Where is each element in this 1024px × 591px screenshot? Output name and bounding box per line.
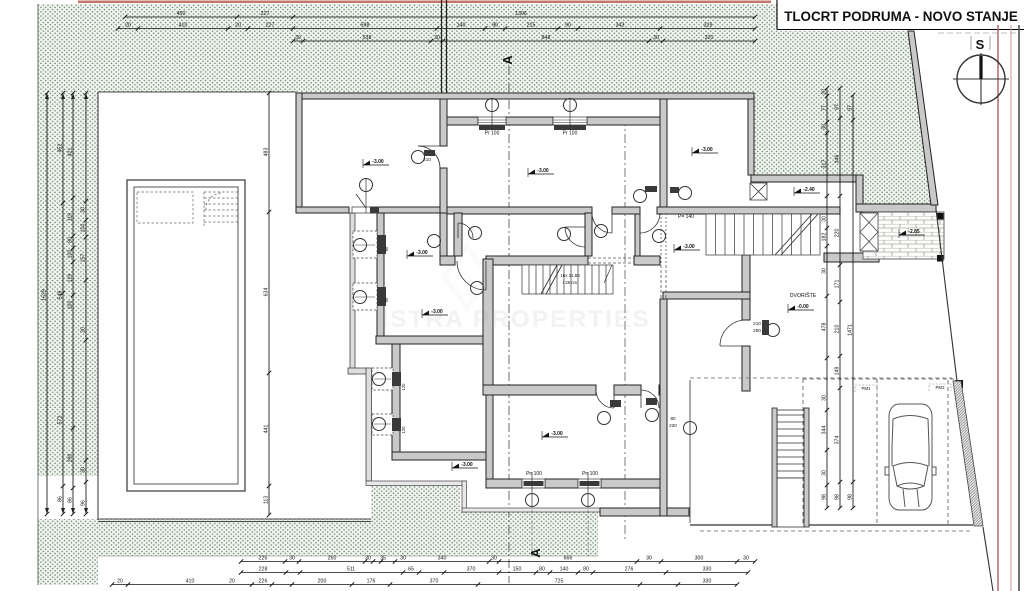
pool shallow zone dashed — [137, 192, 193, 223]
wall south of NW room east part — [378, 207, 447, 213]
svg-text:200: 200 — [318, 579, 327, 585]
wall light shaft b — [506, 117, 553, 125]
svg-text:100: 100 — [81, 224, 87, 233]
level mark terrace — [794, 187, 820, 196]
parking label PM2 — [929, 384, 951, 391]
dimension row bottom 3 — [110, 579, 739, 587]
door D1 in NW divider wall — [418, 146, 440, 168]
door D3a corridor west leaf — [592, 213, 612, 233]
svg-text:77: 77 — [822, 105, 828, 111]
site boundary left edge — [37, 4, 39, 585]
svg-text:16x 21,88: 16x 21,88 — [560, 273, 580, 278]
wall corridor south mid — [612, 207, 640, 214]
fixture circle at 685,193 — [679, 187, 692, 200]
svg-text:149: 149 — [835, 367, 841, 376]
section line secondary — [624, 117, 626, 540]
svg-text:30: 30 — [491, 556, 497, 562]
parking south dashed — [700, 530, 973, 532]
boundary line diagonal middle — [936, 209, 957, 381]
dimension col right 3 — [848, 93, 856, 510]
wall thin west jog — [348, 368, 368, 374]
wall below brick terrace — [824, 253, 879, 262]
svg-text:140: 140 — [457, 23, 466, 29]
wall exterior west upper — [296, 93, 302, 213]
dimension col left 1 — [42, 91, 50, 516]
wall duct column — [440, 213, 447, 256]
parcel boundary double line — [441, 0, 443, 93]
wall light shaft c — [587, 117, 663, 125]
column marker bottom — [937, 255, 944, 262]
car top view — [885, 404, 936, 510]
window Pn100 west — [522, 471, 545, 507]
wall corridor south east — [657, 207, 840, 214]
title block divider horizontal — [777, 29, 1024, 31]
svg-text:228: 228 — [259, 567, 268, 573]
svg-text:119: 119 — [68, 213, 74, 221]
wall big room south east part — [659, 385, 667, 395]
window axis dashed b — [587, 488, 589, 556]
stairs external south — [777, 410, 804, 527]
svg-text:-3.00: -3.00 — [551, 431, 563, 437]
door D5 to stair hall — [457, 261, 486, 290]
title block divider vertical — [776, 0, 778, 30]
svg-text:80: 80 — [670, 416, 676, 421]
svg-text:410: 410 — [179, 23, 188, 29]
door D9 in small divider wall — [565, 227, 585, 247]
parking south line — [690, 524, 973, 526]
level mark brick terrace — [899, 229, 925, 238]
svg-text:290: 290 — [68, 454, 74, 463]
svg-text:483: 483 — [264, 148, 270, 157]
svg-text:150: 150 — [513, 567, 522, 573]
site lawn left strip — [37, 92, 98, 476]
svg-text:-3.00: -3.00 — [461, 462, 473, 468]
fixture circle at 477,288 — [471, 282, 484, 295]
svg-text:1471: 1471 — [848, 324, 854, 336]
svg-text:370: 370 — [467, 567, 476, 573]
fixture circle at 434,241 — [428, 235, 441, 248]
wall corridor south west — [447, 207, 592, 214]
window with vent in NW south wall — [352, 179, 379, 214]
svg-text:100: 100 — [68, 250, 74, 259]
svg-text:80: 80 — [68, 237, 74, 243]
fixture circle at 690,428 — [684, 422, 697, 435]
svg-text:80: 80 — [583, 567, 589, 573]
wall divider NW room lower — [440, 168, 447, 213]
pink margin line 1 — [997, 25, 999, 591]
X-braced wall strip at terrace — [860, 213, 878, 251]
fixture box c — [670, 187, 679, 193]
brick terrace east — [863, 212, 944, 259]
svg-text:/ 28 cm: / 28 cm — [563, 280, 578, 285]
svg-text:20: 20 — [81, 327, 87, 333]
svg-text:346: 346 — [835, 155, 841, 164]
svg-text:572: 572 — [58, 416, 64, 425]
site lawn bottom strip — [98, 486, 598, 556]
terrace edge line west — [366, 481, 466, 486]
boundary wall diagonal thick — [908, 31, 938, 205]
svg-text:S: S — [976, 37, 985, 52]
svg-text:-3.00: -3.00 — [701, 147, 713, 153]
fixture box d — [610, 400, 621, 407]
hidden wall dashed stair east — [660, 265, 662, 299]
site lawn right upper connector — [751, 4, 777, 175]
svg-text:P= 140: P= 140 — [678, 214, 694, 220]
svg-text:317: 317 — [822, 160, 828, 169]
svg-text:511: 511 — [347, 567, 355, 573]
svg-text:227: 227 — [266, 23, 275, 29]
svg-text:20: 20 — [235, 23, 241, 29]
parking boundary dashed — [803, 379, 955, 525]
svg-text:-3.00: -3.00 — [372, 159, 384, 165]
wall lower-left west — [392, 344, 400, 460]
svg-text:ISTRA PROPERTIES: ISTRA PROPERTIES — [381, 306, 650, 333]
svg-text:374: 374 — [835, 436, 841, 445]
stairs main flight — [522, 265, 613, 294]
svg-text:90: 90 — [384, 246, 389, 251]
dashed helper line near compass — [938, 32, 1016, 34]
dimension row bottom 2 — [239, 567, 750, 575]
svg-text:30: 30 — [822, 395, 828, 401]
level mark SW room — [452, 462, 478, 471]
svg-text:65: 65 — [408, 567, 414, 573]
fixture circle at 601,231 — [595, 225, 608, 238]
wall mid-left vertical — [377, 213, 384, 344]
dimension row bottom 1 — [239, 556, 757, 564]
wall lower-mid west — [483, 259, 493, 385]
svg-text:20: 20 — [117, 579, 123, 585]
fixture circle at 640,196 — [634, 190, 647, 203]
wall above stair right — [634, 256, 660, 265]
column marker parking — [955, 380, 963, 388]
wall small room divider a — [454, 213, 462, 256]
svg-text:30: 30 — [822, 124, 828, 130]
hidden wall dotted below divider — [660, 213, 662, 265]
svg-text:157: 157 — [81, 254, 87, 263]
wall courtyard west upper — [742, 255, 750, 320]
wall above stair mid — [486, 256, 588, 265]
svg-text:1306: 1306 — [515, 11, 527, 17]
svg-text:90: 90 — [492, 23, 498, 29]
svg-text:30: 30 — [822, 470, 828, 476]
fixture circle at 475,233 — [469, 227, 482, 240]
svg-text:30: 30 — [365, 556, 371, 562]
fixture box a — [424, 150, 435, 156]
stairs upper flight to terrace — [706, 214, 820, 255]
wall L vertical — [856, 175, 863, 212]
wall bottom room west — [486, 395, 493, 479]
wall above stair left — [440, 256, 455, 265]
svg-text:30: 30 — [822, 268, 828, 274]
svg-text:320: 320 — [705, 35, 714, 41]
wall small divider c — [635, 213, 640, 256]
svg-text:-2.85: -2.85 — [908, 229, 920, 235]
svg-text:329: 329 — [704, 23, 713, 29]
light well SW-2 — [372, 414, 401, 435]
stair side wall west — [772, 408, 777, 527]
svg-text:A: A — [500, 55, 515, 65]
svg-text:30: 30 — [434, 35, 440, 41]
section line A-A vertical — [508, 66, 510, 583]
svg-text:30: 30 — [81, 207, 87, 213]
level mark NE room — [692, 147, 718, 156]
fixture circle at 773,330 — [767, 324, 780, 337]
window axis dashed a — [531, 488, 533, 556]
light well SW-1 — [372, 368, 401, 390]
parking label PM1 — [855, 385, 877, 392]
svg-text:PM1: PM1 — [861, 386, 871, 391]
svg-text:30: 30 — [289, 556, 295, 562]
wall stub south-east — [600, 508, 689, 516]
svg-text:548: 548 — [58, 291, 64, 300]
wall bottom south a — [486, 479, 522, 488]
svg-text:98: 98 — [835, 494, 841, 500]
fixture box f — [762, 320, 769, 335]
svg-text:220: 220 — [669, 423, 677, 428]
window Pr100 west — [478, 98, 506, 137]
svg-text:97: 97 — [835, 104, 841, 110]
svg-text:176: 176 — [367, 579, 376, 585]
svg-text:98: 98 — [822, 494, 828, 500]
wall exterior east upper — [748, 99, 754, 175]
svg-text:Pn 100: Pn 100 — [582, 471, 598, 477]
svg-text:227: 227 — [261, 11, 270, 17]
svg-text:1629: 1629 — [42, 289, 48, 301]
dimension row top 1 — [123, 11, 757, 19]
dimension col middle yard — [264, 91, 272, 517]
svg-text:Pr 100: Pr 100 — [563, 131, 578, 137]
pool outer wall — [127, 180, 245, 491]
wall divider top-right room — [660, 99, 667, 213]
dimension col left 4 — [81, 91, 89, 516]
level mark NW room — [363, 159, 389, 168]
svg-text:634: 634 — [264, 288, 270, 297]
light well NW-1 — [353, 231, 386, 258]
site lawn left strip lower — [37, 519, 98, 585]
svg-text:848: 848 — [542, 35, 551, 41]
svg-text:300: 300 — [695, 556, 704, 562]
pink margin line 2 — [1010, 25, 1012, 591]
svg-text:410: 410 — [186, 579, 195, 585]
svg-text:PM2: PM2 — [935, 385, 945, 390]
svg-text:30: 30 — [295, 35, 301, 41]
level mark S room — [542, 431, 568, 440]
svg-text:30: 30 — [646, 556, 652, 562]
level mark landing — [674, 244, 700, 253]
svg-text:A: A — [528, 548, 543, 558]
wall small room divider b — [585, 213, 592, 256]
svg-text:260: 260 — [328, 556, 337, 562]
svg-text:120: 120 — [401, 426, 406, 434]
fixture circle at 418,157 — [412, 151, 425, 164]
pool inner edge — [134, 187, 238, 484]
svg-text:120: 120 — [401, 383, 406, 391]
svg-text:343: 343 — [616, 23, 625, 29]
svg-text:330: 330 — [703, 579, 712, 585]
level mark small room — [407, 250, 433, 259]
svg-text:290: 290 — [753, 328, 761, 333]
svg-text:210: 210 — [753, 321, 761, 326]
svg-text:100: 100 — [68, 301, 74, 310]
fixture circle at 366,185 — [360, 179, 373, 192]
gray margin line — [1018, 25, 1020, 591]
wall L horizontal — [856, 204, 936, 212]
terrace edge line south — [462, 508, 689, 512]
svg-text:340: 340 — [438, 556, 447, 562]
svg-text:30: 30 — [400, 556, 406, 562]
svg-text:441: 441 — [264, 425, 270, 434]
svg-text:86: 86 — [58, 496, 64, 502]
wall mid-left south — [376, 336, 485, 344]
fixture circle at 659,236 — [653, 230, 666, 243]
svg-text:35: 35 — [380, 556, 386, 562]
fixture box e — [646, 398, 657, 405]
svg-text:538: 538 — [363, 35, 372, 41]
wall band east terrace — [751, 175, 860, 182]
svg-text:220: 220 — [835, 229, 841, 238]
fixture circle at 652,415 — [646, 409, 659, 422]
door D4 courtyard entrance — [720, 320, 746, 346]
svg-text:30: 30 — [81, 467, 87, 473]
svg-text:113: 113 — [264, 496, 270, 504]
wall thin west areaway upper — [350, 213, 355, 374]
svg-text:-3.00: -3.00 — [683, 244, 695, 250]
courtyard dashed line — [690, 377, 952, 379]
site lawn strip above building — [296, 88, 754, 95]
compass north symbol — [953, 36, 1009, 105]
svg-text:370: 370 — [430, 579, 439, 585]
wall divider NW room upper — [440, 99, 447, 146]
wall east mid-lower — [660, 299, 667, 516]
svg-text:344: 344 — [822, 426, 828, 435]
yard boundary south double line — [98, 518, 371, 520]
stair side wall east — [804, 408, 809, 527]
svg-text:97: 97 — [848, 105, 854, 111]
svg-text:20: 20 — [229, 579, 235, 585]
lawn bottom edge — [98, 555, 598, 557]
red boundary line top — [78, 1, 771, 4]
svg-text:-0.00: -0.00 — [797, 304, 809, 310]
window Pn100 east — [578, 471, 601, 507]
wall landing south — [663, 292, 750, 299]
svg-text:666: 666 — [564, 556, 573, 562]
svg-text:210: 210 — [835, 325, 841, 334]
svg-text:Pr 100: Pr 100 — [485, 131, 500, 137]
fixture box b — [645, 186, 657, 192]
svg-text:598: 598 — [361, 23, 370, 29]
dimension row top 2 — [116, 23, 757, 31]
wall thin jog — [462, 481, 467, 512]
pool stairs — [204, 192, 238, 226]
svg-text:452: 452 — [58, 144, 64, 153]
svg-text:86: 86 — [68, 497, 74, 503]
dimension col left 2 — [58, 91, 66, 516]
column marker top — [937, 213, 944, 220]
dimension col left 3 — [68, 91, 76, 516]
svg-text:421: 421 — [68, 148, 74, 157]
svg-text:30: 30 — [743, 556, 749, 562]
svg-text:276: 276 — [625, 567, 634, 573]
site lawn top strip — [37, 4, 775, 92]
svg-text:182: 182 — [822, 233, 828, 242]
site lawn right region with diagonal boundary — [777, 31, 935, 205]
svg-text:725: 725 — [555, 579, 564, 585]
svg-text:129: 129 — [68, 274, 74, 283]
svg-text:Pn 100: Pn 100 — [526, 471, 542, 477]
svg-text:30: 30 — [822, 216, 828, 222]
wall courtyard west lower — [742, 346, 750, 391]
door D6 bottom room west — [596, 390, 614, 408]
svg-text:30: 30 — [653, 35, 659, 41]
svg-text:20: 20 — [125, 23, 131, 29]
svg-text:140: 140 — [560, 567, 569, 573]
svg-text:226: 226 — [259, 579, 268, 585]
svg-text:90: 90 — [565, 23, 571, 29]
dimension row top 3 — [291, 35, 757, 43]
svg-text:215: 215 — [527, 23, 536, 29]
svg-text:TLOCRT PODRUMA - NOVO STANJE: TLOCRT PODRUMA - NOVO STANJE — [784, 9, 1018, 24]
fixture circle at 604,418 — [598, 412, 611, 425]
svg-text:450: 450 — [177, 11, 186, 17]
wall big room south mid part — [614, 385, 641, 395]
X-braced shaft near courtyard — [750, 183, 767, 200]
svg-text:171: 171 — [835, 280, 841, 289]
retaining wall hatched diagonal — [953, 381, 983, 526]
wall south of NW room west part — [296, 207, 349, 213]
svg-text:-3.00: -3.00 — [416, 250, 428, 256]
window Pr100 east — [553, 98, 587, 137]
door D3b corridor east leaf — [640, 213, 660, 233]
dimension col right 2 — [835, 86, 843, 510]
courtyard east edge — [689, 380, 691, 523]
level mark N room — [528, 168, 554, 177]
svg-text:98: 98 — [848, 494, 854, 500]
svg-text:-2.40: -2.40 — [803, 187, 815, 193]
light well NW-2 — [353, 283, 386, 310]
svg-text:90: 90 — [384, 297, 389, 302]
yard boundary north — [98, 91, 296, 93]
level mark mid-left room — [422, 309, 448, 318]
svg-text:210: 210 — [423, 157, 431, 162]
wall exterior north — [296, 93, 754, 99]
fixture circle at 564,234 — [558, 228, 571, 241]
dimension col right 1 — [822, 86, 830, 510]
boundary line diagonal lower — [983, 527, 993, 591]
svg-text:226: 226 — [259, 556, 268, 562]
door D8 small room — [458, 223, 473, 238]
svg-text:-3.00: -3.00 — [537, 168, 549, 174]
door D7 bottom room east — [641, 390, 659, 408]
svg-text:DVORIŠTE: DVORIŠTE — [790, 292, 817, 299]
svg-text:20: 20 — [822, 89, 828, 95]
svg-text:478: 478 — [822, 323, 828, 332]
wall big room south west part — [483, 385, 596, 395]
wall light shaft a — [447, 117, 478, 125]
hidden wall dashed above stair — [588, 257, 634, 259]
level mark courtyard — [788, 304, 814, 313]
wall bottom south c — [601, 479, 667, 488]
wall lower-left south — [392, 452, 489, 460]
yard boundary west — [97, 92, 99, 520]
svg-text:96: 96 — [81, 500, 87, 506]
wall bottom south b — [545, 479, 578, 488]
watermark logo diamond — [444, 247, 490, 307]
wall thin west areaway lower — [366, 368, 372, 481]
svg-text:80: 80 — [539, 567, 545, 573]
svg-text:330: 330 — [703, 567, 712, 573]
